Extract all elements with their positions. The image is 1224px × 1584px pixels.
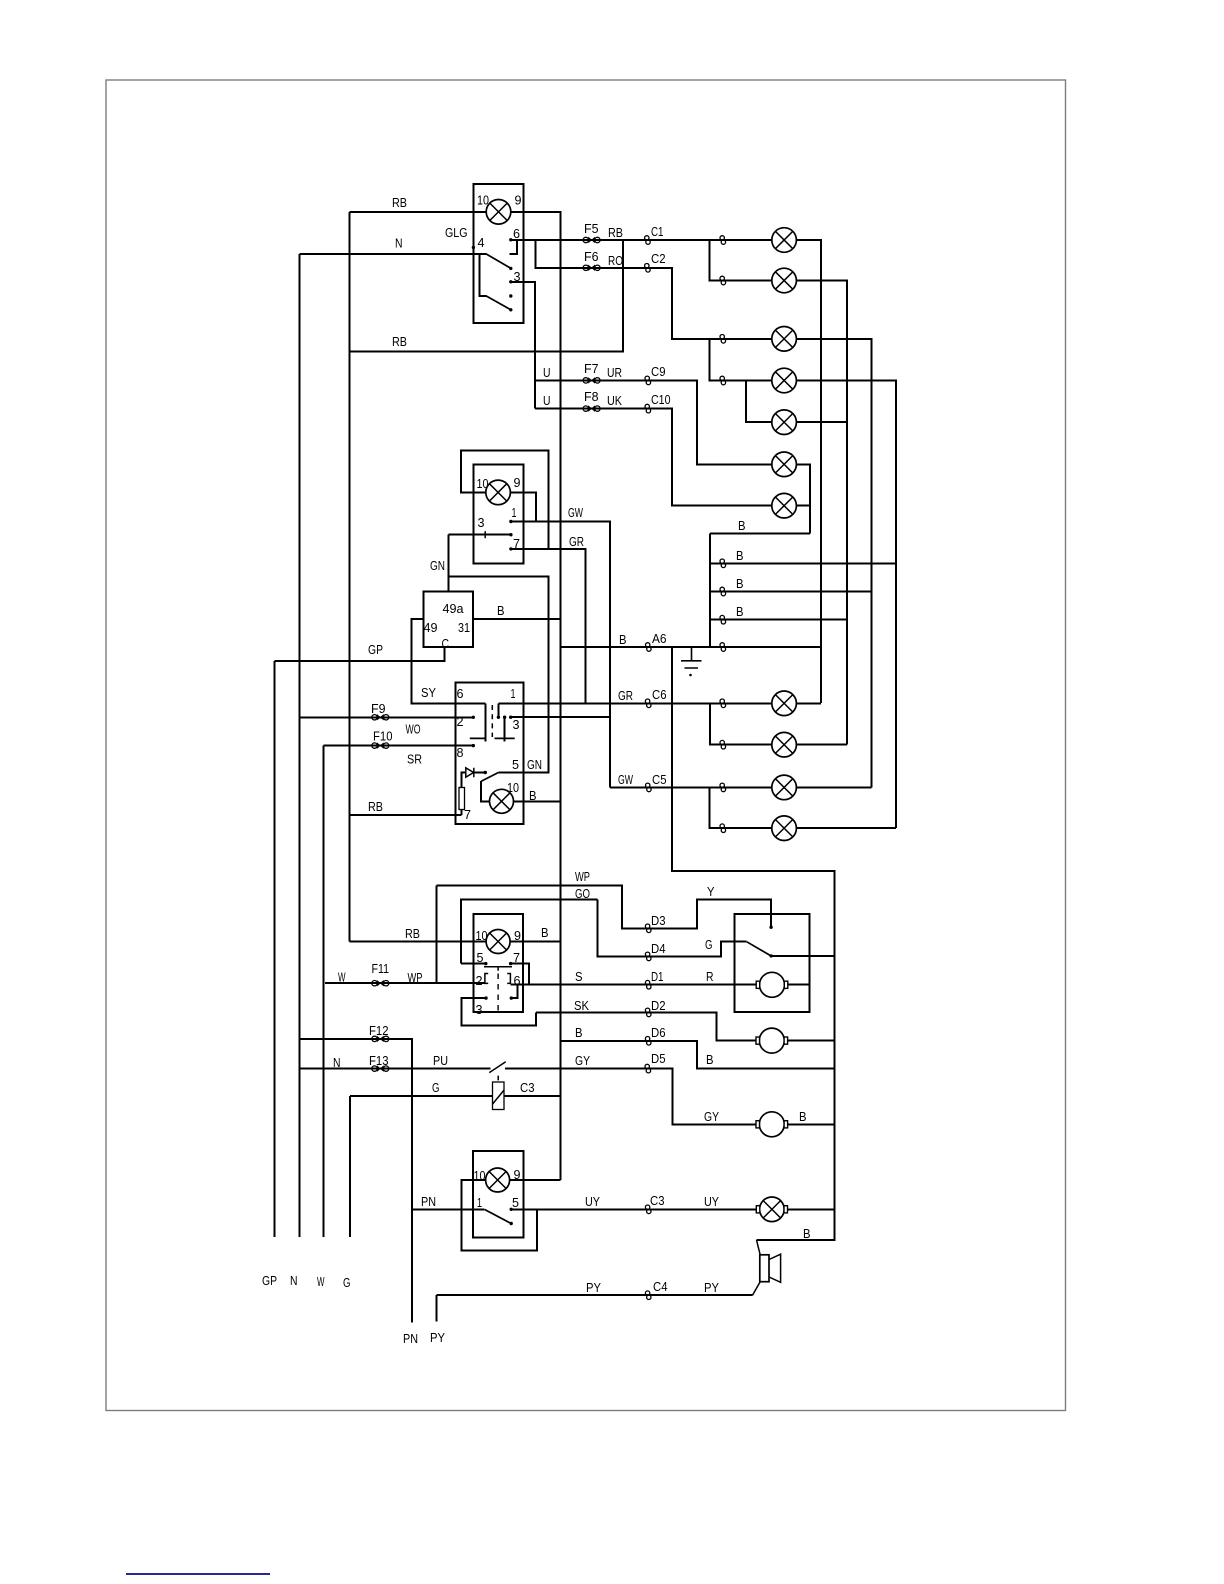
horn speaker [753,1240,781,1295]
wire S2 lamp right jog to pin1 row [510,493,536,522]
wire GW from pin1 [511,522,610,788]
wire spine C5 row to row11 [710,788,773,829]
wire F10 SR row [324,745,474,747]
wire G row left [350,1095,493,1097]
connector D6 [645,1037,651,1046]
fuse F8 [583,406,600,411]
connector inline B row2 [720,559,726,568]
svg-text:2: 2 [457,714,464,729]
wire F7 row [535,380,648,382]
wire S4 pin6 hook [512,985,518,999]
pin 1 contact dot S2 [509,520,512,523]
svg-text:WP: WP [575,869,590,884]
wire GO loop to S4 pin5 [461,900,598,964]
wire B row1 [710,533,810,535]
svg-text:6: 6 [513,226,520,241]
pin 4 contact dot [472,246,475,249]
pin 7 contact dot S2 [509,547,512,550]
svg-text:A6: A6 [652,631,667,646]
svg-text:D6: D6 [651,1025,666,1040]
svg-text:F9: F9 [371,701,386,716]
pin 5 fixed contact dot S3 [484,771,487,774]
svg-text:F13: F13 [369,1053,389,1068]
svg-text:UY: UY [704,1194,719,1209]
pin 6 hook dot S4 [510,996,513,999]
connector C1 [645,236,651,245]
pin 2 contact dot S3 [472,716,475,719]
svg-text:GP: GP [368,642,383,657]
connector inline C6 row [720,699,726,708]
svg-text:F11: F11 [372,961,390,976]
S5 lever with dot [484,1209,510,1223]
svg-text:G: G [343,1275,351,1290]
connector inline B row4 [720,615,726,624]
wire GP bus vertical [274,661,276,1237]
svg-text:C10: C10 [651,392,671,407]
wire RB to S3 pin7 [350,814,462,816]
pin 5 contact dot S5 [510,1208,513,1211]
connector inline row2 [720,276,726,285]
wire M1 to box edge [788,984,810,986]
wire RB bus vertical [349,212,351,942]
svg-text:PN: PN [403,1331,418,1346]
wire G row right [504,1095,561,1097]
svg-text:6: 6 [457,686,464,701]
wire GN vertical to flasher [448,535,450,592]
svg-text:GY: GY [575,1053,590,1068]
svg-text:PU: PU [433,1053,448,1068]
lamp L4 row4 [772,368,797,393]
pin 7 contact dot S4 [509,962,512,965]
connector inline C5 row [720,783,726,792]
svg-text:RB: RB [392,334,407,349]
svg-text:B: B [706,1052,714,1067]
dashed link S3 [491,705,493,737]
svg-text:GY: GY [704,1109,719,1124]
S4 contact bar [484,967,512,971]
wire F8 row [535,408,648,410]
fuse F12 [372,1036,389,1041]
wire GP from flasher C [275,647,445,661]
resistor in S3 [459,788,465,810]
connector C10 [645,404,651,413]
svg-text:C3: C3 [650,1193,665,1208]
svg-text:PY: PY [586,1280,601,1295]
wire S3 pin1 hook [498,704,500,718]
svg-text:UK: UK [607,393,622,408]
svg-text:C3: C3 [520,1080,535,1095]
wire lamp L2 to vertical [797,281,848,745]
wire S3 pin6 link [485,704,487,742]
svg-text:WO: WO [406,722,421,737]
border frame [106,80,1066,1411]
wire N to F12 to PN bus [300,1039,413,1323]
svg-text:8: 8 [457,745,464,760]
wire UY lamp to feed [788,1209,835,1211]
svg-text:WP: WP [408,970,423,985]
svg-text:RB: RB [368,799,383,814]
svg-text:RO: RO [608,253,623,268]
wire F9 WO row [300,717,474,719]
wire lamp L4 to vertical [797,381,897,829]
svg-text:UY: UY [585,1194,600,1209]
svg-text:C1: C1 [651,224,664,239]
svg-text:GP: GP [262,1273,277,1288]
connector inline row9 [720,740,726,749]
lamp L9 [772,732,797,757]
wire resistor to pin7 [461,810,463,816]
wire WP row to pin2 [325,982,485,984]
svg-text:GW: GW [618,772,633,787]
svg-text:F10: F10 [373,729,393,744]
lamp in S3 hazard [490,789,514,813]
lamp in switch S2 [486,480,511,505]
wire lamp L7 to vertical [797,505,811,507]
wire N to S1 pin 4 [300,253,487,255]
switch S1 lighting switch body [474,184,524,323]
lamp L3 row3 [772,327,797,352]
lamp L5 row5 [772,410,797,435]
wire C9 jog to row6 [648,381,772,465]
wire RB to S4 lamp [350,941,487,943]
svg-text:RB: RB [405,926,420,941]
svg-text:G: G [432,1080,440,1095]
fuse F5 [583,237,600,242]
wire S5 lamp right to grand vertical [510,1179,561,1181]
connector C2 [645,264,651,273]
fuse C3 diagonal [493,1090,504,1104]
svg-text:B: B [575,1025,583,1040]
wire S4 pin5 stub [461,963,486,965]
fuse F10 [372,743,389,748]
wire spine C6 row to row9 [710,704,772,745]
wire M2 to feed [788,1040,835,1042]
svg-text:49a: 49a [443,601,465,616]
wire GR from pin7 [511,549,586,704]
pin 3 contact dot S4 [484,996,487,999]
S1 lever upper with contact dot [486,254,510,268]
wire S2 outer loop lamp to GR [461,451,549,550]
wire lamp L1 to vertical [797,240,822,703]
svg-text:C6: C6 [652,687,667,702]
wire lever common to feed [771,955,835,957]
fuse F11 [372,981,389,986]
svg-text:9: 9 [515,193,522,208]
connector D4 [645,952,651,961]
connector inline row1 [720,236,726,245]
svg-text:B: B [738,518,746,533]
svg-text:B: B [541,925,549,940]
pin1 hook dot S3 [497,716,500,719]
svg-text:B: B [736,576,744,591]
svg-text:G: G [705,937,713,952]
switch S2 indicator switch body [474,465,524,564]
svg-text:D2: D2 [651,998,666,1013]
svg-text:R: R [706,969,714,984]
svg-text:5: 5 [512,1195,519,1210]
lamp L10 at C5 [772,775,797,800]
wire spine row1 to row2 [710,240,773,281]
diode in S3 [466,768,474,777]
wire B row4 [710,619,847,621]
svg-text:2: 2 [476,973,483,988]
wire N F13 PU row [300,1068,491,1070]
wiper motor unit box [735,914,810,1012]
svg-text:B: B [736,604,744,619]
lamp L6 row6 [772,452,797,477]
wire S1 pin6 to F5 to C1 [511,239,648,241]
wire B A6 row [561,646,822,648]
pin 3 contact dot S3 [509,716,512,719]
lamp L11 [772,816,797,841]
svg-text:PN: PN [421,1194,436,1209]
S1 lever link vertical [480,254,487,296]
svg-text:GN: GN [430,558,445,573]
wire W bus vertical [323,746,325,1238]
wire S5 lamp loop to UY [462,1180,538,1251]
pin 3 pivot tick S2 [484,531,486,538]
svg-text:RB: RB [608,225,623,240]
svg-text:D3: D3 [651,913,666,928]
svg-text:10: 10 [477,193,489,208]
fuse F7 [583,378,600,383]
svg-text:Y: Y [707,884,715,899]
svg-text:N: N [290,1273,298,1288]
wire PY bus vertical [436,1295,438,1322]
svg-text:W: W [317,1274,325,1289]
wire C2 jog to row3 [648,268,773,339]
pin 6 bracket S4 [507,974,510,984]
S3 lever [481,773,498,782]
ignition switch slash [489,1062,505,1081]
wire S3 pin3 to GW vertical [511,716,611,718]
S1 pin 6 hook contact [510,241,518,255]
lamp in switch S5 [486,1168,510,1192]
svg-text:PY: PY [430,1330,445,1345]
wire C10 jog to row7 [648,409,772,506]
svg-text:GN: GN [527,757,542,772]
wire B from flasher 31 [473,618,561,620]
svg-text:9: 9 [514,475,521,490]
svg-text:RB: RB [392,195,407,210]
svg-text:1: 1 [477,1195,482,1210]
flasher unit box [424,592,474,648]
connector inline A6 row [720,643,726,652]
svg-text:N: N [395,236,403,251]
heater motor M3 [756,1112,788,1137]
svg-text:B: B [736,548,744,563]
connector D3 [645,924,651,933]
svg-text:49: 49 [424,620,438,635]
wire SK to D2 to motor2 [536,1013,757,1041]
lamp L2 row2 [772,268,797,293]
wire N bus vertical [299,254,301,1237]
svg-text:3: 3 [513,717,520,732]
pin 3 contact dot S2 [509,533,512,536]
wire C1 to lamp row1 [648,239,773,241]
connector inline row11 [720,824,726,833]
wire GO row [598,900,649,957]
wire S to D1 row [511,984,757,986]
wire B to D6 [561,1041,835,1069]
svg-text:F7: F7 [584,361,599,376]
pin 8 contact dot S3 [472,744,475,747]
wire GN branch to hazard pin5 [449,577,549,773]
wire WP row upper [437,886,649,929]
connector inline row4 [720,376,726,385]
wire G bus vertical [349,1096,351,1237]
wire row4 tap to lamp L5 [746,381,772,423]
svg-text:D4: D4 [651,941,666,956]
svg-text:F6: F6 [584,249,599,264]
pin 3 link dot S3 [503,716,506,719]
wire B row2 [710,563,896,565]
svg-text:SR: SR [407,752,422,767]
connector C4 [645,1291,651,1300]
connector A6 [646,643,652,652]
connector inline row3 [720,335,726,344]
wiper motor M1 [756,972,788,997]
wire diode to contact [474,772,486,774]
svg-text:B: B [803,1226,811,1241]
svg-text:GO: GO [575,886,590,901]
svg-text:GLG: GLG [445,225,468,240]
lamp in switch S4 [486,930,510,954]
ground symbol [681,647,702,668]
wire S4 pin7 jog to S row [511,964,530,985]
svg-text:F12: F12 [369,1023,389,1038]
switch S3 hazard switch body [456,683,524,825]
wire S1 pin3 down to F8 row [511,282,535,409]
connector D1 [645,980,651,989]
connector C3 inline [645,1205,651,1214]
S1 middle contact dot [509,294,512,297]
svg-text:GR: GR [569,534,584,549]
footer underline [126,1573,270,1575]
wire S3 pin3 link down [504,717,506,742]
wire D3 to Y [648,900,771,929]
svg-text:3: 3 [476,1002,483,1017]
svg-text:D1: D1 [651,969,664,984]
wire RB to S1 lamp pin 10 [350,211,487,213]
lamp L8 at C6 [772,691,797,716]
dashed link S4 [497,974,499,1014]
svg-text:GR: GR [618,688,633,703]
lamp in switch S1 [486,200,511,225]
lamp L7 row7 [772,493,797,518]
svg-text:C2: C2 [651,251,666,266]
lamp L1 row1 [772,228,797,253]
svg-text:B: B [799,1109,807,1124]
svg-text:SY: SY [421,685,436,700]
svg-text:SK: SK [574,998,589,1013]
washer motor M2 [756,1028,788,1053]
connector C5 [646,783,652,792]
wire D4 G to relay lever [648,942,747,957]
wire lamp L5 to vertical [797,421,848,423]
svg-text:F5: F5 [584,221,599,236]
svg-text:U: U [543,365,551,380]
wire lever to lamp S3 [481,781,490,802]
svg-text:PY: PY [704,1280,719,1295]
wire C6 row to lamp L8 [499,703,773,705]
wire lamp L3 to vertical [797,339,872,788]
wire spine row3 to row4 [710,339,773,381]
svg-text:5: 5 [512,757,519,772]
wire lamp L8 right [797,703,822,705]
svg-text:10: 10 [477,476,489,491]
wire B row3 [710,591,872,593]
wire lamp L9 right [797,744,848,746]
connector C6 [645,699,651,708]
wire GY to D5 [505,1069,757,1125]
svg-text:1: 1 [511,686,516,701]
fuse F13 [372,1066,389,1071]
svg-text:4: 4 [478,235,485,250]
svg-text:F8: F8 [584,389,599,404]
connector C9 [645,376,651,385]
wire lamp L6 to vertical [797,465,811,534]
wire diode left to resistor [462,773,467,788]
pin 3 contact dot S1 [509,280,512,283]
switch S5 panel switch body [473,1151,524,1238]
wire B bus spine [709,534,711,648]
S3 rocker bars [470,737,515,739]
svg-text:UR: UR [607,365,622,380]
wire feed A6 down and across [672,647,835,1240]
wire WP vertical [436,886,438,984]
svg-text:N: N [333,1055,341,1070]
wire tap to F6 row [536,240,648,268]
wire lamp L11 right [797,827,897,829]
S1 lever lower with contact dot [486,296,510,310]
wire S4 pin3 loop to SK [462,998,537,1026]
pin 6 contact dot [509,238,512,241]
wire S4 lamp to B vertical [510,941,561,943]
svg-text:1: 1 [512,505,517,520]
wire PN row [412,1209,484,1211]
wire 49 to SY [412,619,486,704]
wire GN pin3 row [449,534,512,536]
svg-text:3: 3 [478,515,485,530]
connector inline B row3 [720,587,726,596]
svg-text:B: B [497,603,505,618]
svg-text:U: U [543,393,551,408]
wire UY row [511,1209,757,1211]
svg-text:B: B [619,632,627,647]
fuse F6 [583,265,600,270]
pin 5 contact dot S4 [484,962,487,965]
svg-text:C9: C9 [651,364,666,379]
svg-text:D5: D5 [651,1051,666,1066]
svg-text:C5: C5 [652,772,667,787]
wire M3 to feed [788,1124,835,1126]
connector D2 [645,1008,651,1017]
wiper relay lever with dot [747,942,771,956]
wire PY row [437,1294,753,1296]
switch S4 wiper switch body [474,914,524,1012]
svg-text:31: 31 [458,620,470,635]
fuse F9 [372,715,389,720]
fuse C3 box [493,1082,505,1110]
svg-text:C4: C4 [653,1279,668,1294]
wire lamp L10 right [797,787,872,789]
wire B grand vertical from S1 lamp [511,212,561,1180]
wire S3 lamp B out [514,801,561,803]
wire GW C5 row to lamp L10 [610,787,772,789]
svg-text:W: W [338,970,346,985]
Y contact dot in wiper relay box [769,926,772,929]
